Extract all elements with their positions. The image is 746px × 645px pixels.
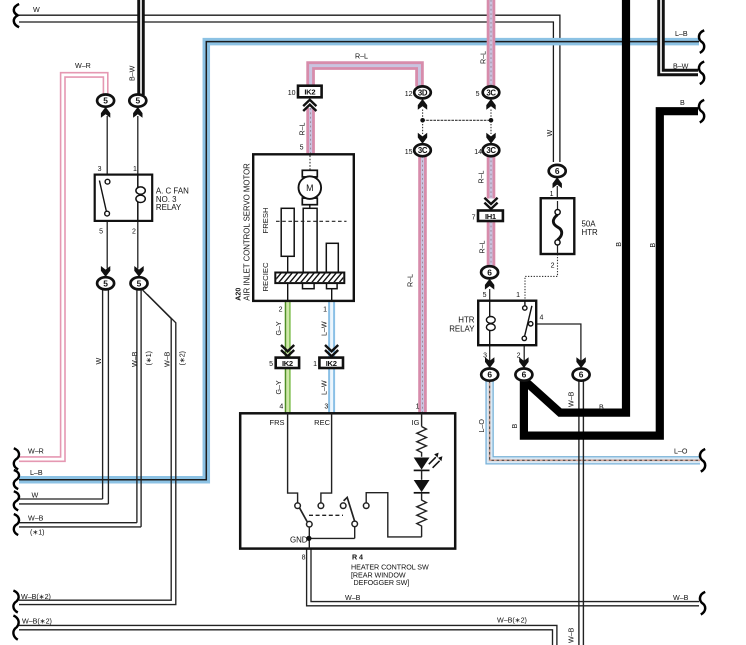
servo hatched bar RECIEC [272, 272, 354, 284]
heater SW IG wire [421, 413, 423, 426]
svg-text:HTR: HTR [582, 228, 599, 237]
node junction dot right [489, 118, 494, 123]
svg-text:W–B(∗2): W–B(∗2) [497, 617, 527, 625]
svg-text:5: 5 [103, 96, 108, 106]
svg-text:L–B: L–B [675, 30, 688, 38]
wire L-B (blue with black stripe: right break, across top, down left side, to left break) [19, 42, 699, 480]
connector 5 (oval, below relay pin 5) with arrow down [97, 266, 114, 289]
wire W-B(*2) (pair, diagonal from connector 5, down left side to bottom-left break) [19, 290, 176, 604]
svg-text:W–R: W–R [75, 62, 91, 70]
svg-text:6: 6 [487, 267, 492, 277]
svg-text:M: M [306, 183, 313, 193]
node GND junction dot [306, 536, 311, 541]
connector 14 3C (oval) with arrow down [483, 133, 500, 156]
svg-text:2: 2 [517, 352, 521, 359]
svg-text:L–O: L–O [478, 419, 486, 433]
svg-text:4: 4 [279, 404, 283, 411]
svg-text:L–B: L–B [30, 469, 43, 477]
connector 5 (oval, top left, on W-R) with arrow up [97, 95, 114, 118]
svg-text:W–B: W–B [568, 627, 576, 643]
svg-text:3: 3 [98, 166, 102, 173]
chevron on G-Y at 5 IK2 (pointing down) [281, 345, 294, 356]
svg-text:6: 6 [522, 370, 527, 380]
svg-text:W: W [33, 6, 40, 14]
servo slider rectangles [281, 208, 338, 288]
svg-text:R–L: R–L [478, 170, 486, 183]
svg-text:IK2: IK2 [282, 359, 293, 368]
svg-text:3: 3 [324, 404, 328, 411]
svg-text:B: B [615, 242, 623, 247]
svg-text:IK2: IK2 [326, 359, 337, 368]
servo motor wire pin5 to motor (dotted) [309, 156, 311, 171]
svg-text:W: W [546, 130, 554, 137]
svg-text:3C: 3C [418, 146, 428, 155]
svg-text:6: 6 [579, 370, 584, 380]
wire L-W (from servo pin 1 down through IK2 to heater SW pin 3 REC) [328, 301, 335, 413]
svg-text:(∗1): (∗1) [30, 528, 45, 536]
svg-text:B–W: B–W [673, 63, 689, 71]
heater SW FRS switch blade to GND [300, 508, 312, 548]
connector 6 (oval, above 50A HTR) with arrow up [549, 165, 566, 188]
svg-text:W–B(∗2): W–B(∗2) [21, 593, 51, 601]
connector 5 (oval, top, on B-W) with arrow up [129, 95, 146, 118]
servo slider link wire [288, 205, 332, 301]
svg-text:W: W [95, 358, 103, 365]
wire R-L (from connector 14-3C down through IH1 to connector 6) [487, 156, 496, 267]
wire G-Y (from servo pin 2 down through IK2 to heater SW pin 4 FRS) [286, 301, 290, 413]
wire W-B (pair from heater SW pin 8 GND down then right to right break) [307, 549, 699, 606]
svg-text:5: 5 [103, 278, 108, 288]
svg-text:[REAR WINDOW: [REAR WINDOW [351, 571, 406, 579]
wire W-R (pink pair: left break up to connector 5) [19, 73, 108, 462]
svg-text:5: 5 [99, 229, 103, 236]
svg-text:R–L: R–L [407, 274, 415, 287]
break symbol right edge (L-O) [700, 449, 705, 472]
heater SW REC branch wire and contact [318, 413, 332, 508]
svg-text:AIR INLET CONTROL SERVO MOTOR: AIR INLET CONTROL SERVO MOTOR [243, 163, 252, 301]
connector 6 (oval, below HTR relay pin 2) with arrow down [515, 357, 532, 381]
svg-text:IH1: IH1 [485, 212, 497, 221]
servo dashed travel line [276, 220, 347, 222]
svg-text:W–B: W–B [131, 351, 139, 367]
svg-text:HTR: HTR [458, 316, 475, 325]
svg-text:B: B [599, 404, 604, 412]
svg-text:1: 1 [313, 361, 317, 368]
wire R-L (from page top down to connector 5-3C) [487, 0, 496, 87]
svg-text:12: 12 [405, 91, 413, 98]
chevron on R-L at 7 IH1 (pointing down) [484, 198, 497, 209]
svg-text:5: 5 [483, 292, 487, 299]
svg-text:RECIEC: RECIEC [261, 262, 270, 291]
connector box 7 IH1 [478, 211, 503, 222]
svg-text:8: 8 [302, 555, 306, 562]
break symbol left edge (W top) [14, 4, 19, 27]
dotted link between connectors 12-3D / 5-3C / 15-3C / 14-3C [423, 110, 491, 135]
break symbol left edge (W-R) [14, 448, 19, 469]
wire W-B (pair from connector 6 at HTR relay pin 4 straight down to page bottom) [579, 381, 584, 645]
break symbol left edge (L-B) [14, 470, 19, 489]
wire HTR relay pin 3 down to connector 6 [489, 345, 491, 368]
svg-text:RELAY: RELAY [449, 325, 475, 334]
svg-text:15: 15 [405, 149, 413, 156]
connector 5 (oval, below relay pin 2) with arrow down [131, 266, 148, 289]
wire HTR relay pin 2 down to connector 6 [523, 345, 525, 368]
svg-text:1: 1 [550, 191, 554, 198]
svg-text:2: 2 [551, 263, 555, 270]
svg-text:14: 14 [474, 149, 482, 156]
svg-text:B: B [680, 99, 685, 107]
break symbol left edge (W) [14, 491, 19, 510]
svg-text:R–L: R–L [355, 53, 368, 61]
A.C fan relay switch contacts and blade [99, 179, 110, 216]
break symbol left edge (W-B *2 lower) [13, 616, 18, 640]
HTR relay coil [486, 301, 495, 346]
svg-text:3C: 3C [486, 146, 496, 155]
connector 6 (oval, below HTR relay pin 3) with arrow down [481, 357, 498, 381]
svg-text:FRS: FRS [270, 418, 285, 427]
wire B (thick: page top, down right side, corner, diagonal to connector 6) [524, 0, 626, 413]
wire W (left pair from connector 5 down to left break) [19, 289, 108, 504]
svg-text:B: B [511, 424, 519, 429]
svg-text:3: 3 [483, 352, 487, 359]
svg-text:W: W [32, 492, 39, 500]
connector box 10 IK2 [298, 86, 322, 98]
svg-text:W–R: W–R [28, 447, 44, 455]
svg-text:IG: IG [412, 418, 420, 427]
svg-text:3D: 3D [418, 88, 428, 97]
svg-text:1: 1 [416, 404, 420, 411]
connector box 1 IK2 [319, 358, 343, 368]
break symbol left edge (W-B *1) [14, 514, 19, 535]
break symbol right edge (B) [699, 100, 704, 123]
svg-text:(∗2): (∗2) [179, 351, 187, 366]
heater SW ganged switch dashed link [309, 514, 343, 516]
wire from A.C fan relay pin 2 down to connector 5 [137, 221, 139, 269]
svg-text:4: 4 [540, 314, 544, 321]
break symbol right edge (L-B) [699, 30, 704, 53]
svg-text:5: 5 [476, 91, 480, 98]
break symbol left edge (W-B *2 upper) [13, 591, 18, 613]
wire W-B(*2) (bottom pair from left break right then down to page bottom) [19, 625, 557, 645]
svg-text:1: 1 [516, 292, 520, 299]
svg-text:FRESH: FRESH [261, 207, 270, 233]
connector 5 3C (oval) with arrow up [483, 86, 500, 109]
svg-text:1: 1 [323, 307, 327, 314]
resistor R-top (IG) [417, 427, 427, 457]
svg-text:2: 2 [132, 229, 136, 236]
svg-text:IK2: IK2 [304, 88, 315, 97]
svg-text:5: 5 [135, 96, 140, 106]
HTR relay switch pin1 blade pin4 [522, 301, 533, 341]
svg-text:W–B: W–B [164, 351, 172, 367]
connector 15 3C (oval) with arrow down [414, 133, 431, 156]
wire R-L dotted centerline details [311, 0, 491, 414]
svg-text:G–Y: G–Y [275, 380, 283, 394]
resistor R-bottom [417, 493, 427, 537]
wire W (top horizontal band, from left break to 50A HTR drop) [19, 15, 560, 162]
wire R-L (from chevron below IK2 down to servo motor box pin 5) [306, 108, 315, 154]
svg-text:R–L: R–L [479, 240, 487, 253]
wire W short segment from arrow into 50A HTR fuse pin 1 [556, 186, 558, 198]
svg-text:5: 5 [137, 278, 142, 288]
connector 6 (oval, below HTR relay pin 4) with arrow down [573, 357, 590, 381]
fuse box 50A HTR [541, 198, 575, 254]
connector 12 3D (oval) with arrow up [414, 86, 431, 109]
svg-text:(∗1): (∗1) [145, 351, 153, 366]
svg-text:7: 7 [472, 215, 476, 222]
wire from A.C fan relay pin 1 up to connector 5 [137, 116, 139, 175]
connector box 5 IK2 [276, 358, 299, 368]
heater control SW box R4 [240, 413, 455, 548]
svg-text:2: 2 [279, 307, 283, 314]
svg-text:R–L: R–L [480, 51, 488, 64]
wire R-L short segment from arrow into HTR relay pin 5 [489, 289, 491, 301]
svg-text:W–B: W–B [345, 594, 361, 602]
svg-text:10: 10 [288, 90, 296, 97]
chevron on R-L at 10 IK2 (pointing up) [303, 100, 316, 111]
wire L-O (from connector 6 below HTR relay down and right to right break) [490, 381, 700, 461]
servo motor box A20 [253, 154, 354, 301]
chevron on L-W at 1 IK2 (pointing down) [325, 345, 338, 356]
LED 1 [414, 453, 443, 471]
svg-text:1: 1 [133, 166, 137, 173]
svg-text:L–O: L–O [674, 448, 688, 456]
HTR relay box [478, 301, 536, 346]
wire R-L (from connector 15-3C down to heater control SW pin 1 IG) [418, 156, 427, 414]
svg-text:W–B: W–B [673, 594, 689, 602]
svg-text:B–W: B–W [129, 65, 137, 81]
wire W-B(*1) (pair from connector 5 down to left break) [19, 289, 141, 527]
A.C fan relay box [95, 175, 153, 221]
svg-text:HEATER CONTROL SW: HEATER CONTROL SW [351, 564, 429, 572]
svg-text:R 4: R 4 [352, 554, 363, 562]
servo motor M with caps [299, 170, 322, 204]
svg-text:B: B [649, 243, 657, 248]
A.C fan relay coil [136, 175, 145, 221]
wire B (thick: connector 6 down, right, up right side to right break) [524, 111, 698, 435]
svg-text:REC: REC [314, 418, 330, 427]
heater SW third contact and loop wire to resistor chain [363, 493, 421, 537]
svg-text:L–W: L–W [321, 380, 329, 395]
svg-text:DEFOGGER SW]: DEFOGGER SW] [354, 579, 410, 587]
svg-text:5: 5 [300, 145, 304, 152]
heater SW second switch blade and contacts [309, 497, 357, 538]
wire B-W (black with white stripe, page top right side, to right break) [661, 0, 698, 73]
connector 6 (oval, above HTR relay pin 5) with arrow up [481, 266, 498, 289]
node junction dot left [420, 118, 425, 123]
wire from A.C fan relay pin 3 up to connector 5 [106, 116, 108, 175]
svg-text:A20: A20 [235, 288, 243, 301]
svg-text:G–Y: G–Y [275, 321, 283, 335]
wire HTR relay pin 4 right then down to connector 6 [533, 324, 581, 369]
svg-text:6: 6 [487, 370, 492, 380]
wire from 50A HTR pin 2 to HTR relay pin 1 (dotted) [525, 254, 558, 301]
svg-text:RELAY: RELAY [156, 203, 182, 212]
heater SW FRS branch wire and contact [288, 413, 301, 508]
svg-text:W–B(∗2): W–B(∗2) [22, 618, 52, 626]
wire R-L (horizontal run with drops to connector IK2 and to connector 12-3D) [311, 66, 420, 87]
svg-text:GND: GND [290, 536, 308, 545]
break symbol right edge (W-B) [700, 592, 705, 615]
wire from A.C fan relay pin 5 down to connector 5 [106, 221, 108, 269]
LED 2 [414, 470, 430, 492]
svg-text:W–B: W–B [568, 391, 576, 407]
break symbol right edge (B-W) [699, 62, 704, 85]
wire B-W (black with white stripe, page top down to connector 5) [137, 0, 145, 95]
svg-text:R–L: R–L [299, 122, 307, 135]
svg-text:W–B: W–B [28, 514, 44, 522]
svg-text:3C: 3C [486, 88, 496, 97]
svg-text:L–W: L–W [321, 321, 329, 336]
svg-text:5: 5 [269, 361, 273, 368]
svg-text:6: 6 [555, 166, 560, 176]
